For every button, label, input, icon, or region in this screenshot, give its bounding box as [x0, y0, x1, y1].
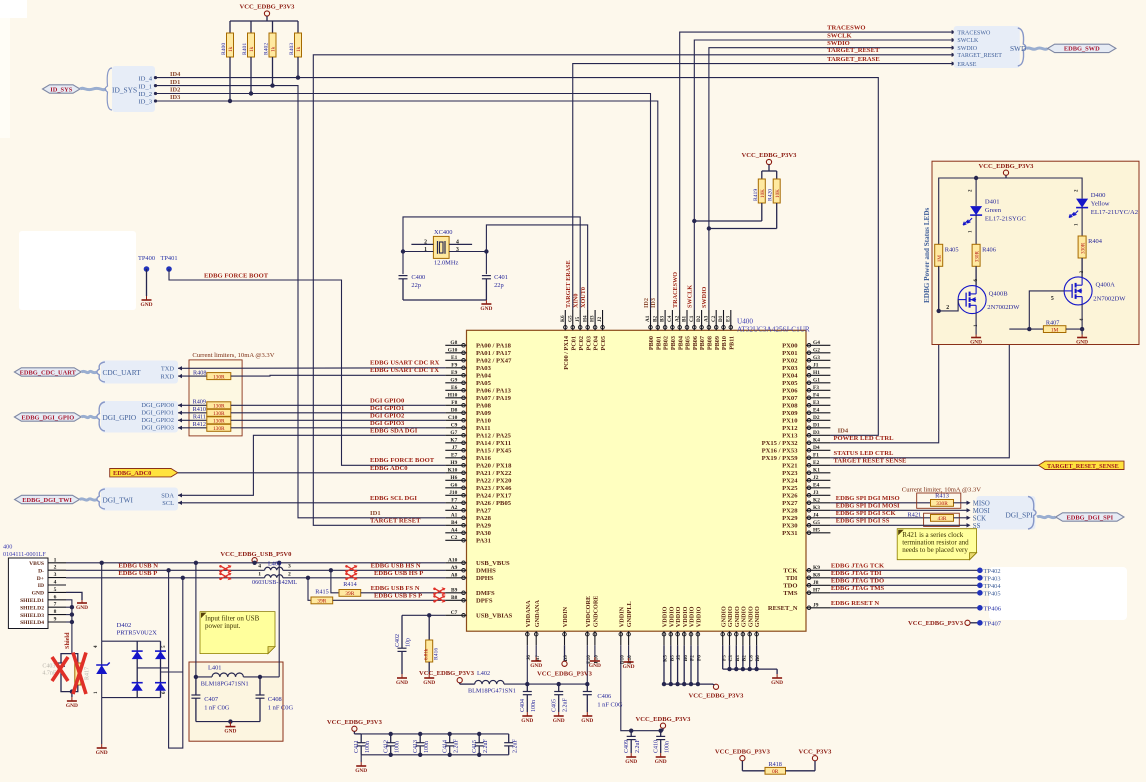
- wire d402 top rail: [102, 640, 161, 642]
- svg-text:100n: 100n: [395, 741, 401, 753]
- svg-text:DGI GPIO2: DGI GPIO2: [370, 413, 405, 420]
- svg-text:C400: C400: [411, 274, 425, 281]
- junction ct449: [448, 732, 452, 736]
- svg-text:C10: C10: [448, 415, 458, 421]
- svg-text:PA31: PA31: [476, 538, 491, 545]
- svg-text:R410: R410: [193, 406, 206, 413]
- port EDBG_DGI_TWI: [15, 495, 80, 504]
- svg-text:XIN0: XIN0: [573, 294, 580, 308]
- svg-text:2: 2: [54, 565, 57, 571]
- svg-text:2N7002DW: 2N7002DW: [987, 304, 1020, 311]
- svg-text:1 nF C0G: 1 nF C0G: [268, 705, 294, 712]
- wire RXD right: [231, 374, 445, 377]
- wire SCK right: [954, 517, 968, 519]
- junction R419-SWCLK: [692, 219, 696, 223]
- svg-text:D3: D3: [813, 430, 820, 436]
- svg-text:PX06: PX06: [782, 388, 798, 395]
- svg-text:B3: B3: [660, 316, 666, 322]
- svg-text:GND: GND: [521, 718, 533, 724]
- junction dnp bottom: [70, 689, 74, 693]
- U400 designator: [737, 318, 810, 334]
- svg-text:PC04: PC04: [593, 336, 600, 350]
- wire DGI_GPIO1 left: [178, 412, 207, 414]
- svg-text:L401: L401: [208, 665, 222, 672]
- wire TRACESWO: [680, 32, 953, 310]
- junction vddana rail: [525, 682, 529, 686]
- svg-text:EDBG_DGI_TWI: EDBG_DGI_TWI: [22, 497, 72, 504]
- ground C406: [581, 712, 593, 724]
- net label SWDIO vertical: [701, 286, 708, 308]
- harness connector DGI_TWI: [80, 488, 179, 511]
- svg-text:E4: E4: [813, 408, 820, 414]
- svg-text:EDBG USB HS N: EDBG USB HS N: [371, 563, 421, 570]
- net label TARGET RESET pin: [370, 517, 421, 524]
- svg-text:EDBG SPI DGI SCK: EDBG SPI DGI SCK: [836, 510, 897, 517]
- svg-text:PC01: PC01: [570, 336, 577, 350]
- net label EDBG JTAG TCK: [831, 563, 885, 570]
- wire SWDIO: [709, 48, 953, 310]
- svg-text:100n: 100n: [664, 741, 670, 753]
- net label DGI GPIO3: [370, 420, 405, 427]
- power VCC_P3V3: [786, 749, 833, 771]
- svg-text:R411: R411: [193, 413, 206, 420]
- testpoint TP405: [977, 590, 1000, 597]
- transistor Q400A 2N7002DW: [1051, 270, 1126, 321]
- junction sh8: [70, 612, 74, 616]
- svg-text:TARGET RESET SENSE: TARGET RESET SENSE: [834, 458, 908, 465]
- junction vddio 697: [696, 682, 700, 686]
- wire xtal gnd: [403, 299, 486, 301]
- capacitor C401 22p: [482, 274, 508, 300]
- svg-text:330R: 330R: [936, 501, 948, 507]
- svg-text:K10: K10: [448, 468, 458, 474]
- U400 top pins PC00-PC05: [560, 310, 607, 370]
- inductor L400 0603USB-142ML: [252, 561, 297, 586]
- net label EDBG USB HS N: [371, 563, 421, 570]
- wire FS N right: [361, 592, 446, 594]
- svg-text:ERASE: ERASE: [957, 62, 976, 68]
- diode D402c upper right: [155, 641, 166, 697]
- svg-text:GNDANA: GNDANA: [534, 600, 541, 628]
- wire POWER LED CTRL: [830, 311, 938, 443]
- svg-text:VCC_EDBG_P3V3: VCC_EDBG_P3V3: [419, 670, 475, 677]
- svg-text:G3: G3: [813, 355, 820, 361]
- wire DGI_GPIO2 right: [231, 419, 445, 421]
- svg-text:PA05: PA05: [476, 380, 492, 387]
- wire DGI_GPIO3 right: [231, 427, 445, 429]
- svg-text:D1: D1: [718, 315, 724, 322]
- svg-text:ID4: ID4: [838, 428, 849, 435]
- power VCC_EDBG_P3V3 led box: [979, 163, 1035, 178]
- ground caps row: [355, 762, 367, 774]
- svg-text:RXD: RXD: [161, 374, 175, 381]
- pin number d402: [94, 645, 167, 694]
- svg-text:8: 8: [54, 609, 57, 615]
- wire d402 vbus drop: [101, 563, 103, 641]
- wire led rail: [939, 178, 1082, 244]
- svg-text:A10: A10: [448, 558, 458, 564]
- svg-text:EDBG JTAG TDI: EDBG JTAG TDI: [831, 570, 882, 577]
- junction vbias r416: [427, 613, 431, 617]
- capacitor C402 10p: [395, 615, 412, 674]
- svg-text:C413: C413: [413, 740, 419, 753]
- net label ID4: [170, 71, 181, 78]
- svg-text:C404: C404: [520, 699, 526, 712]
- svg-text:GNDPLL: GNDPLL: [626, 601, 633, 627]
- wire GNDIO rail: [723, 645, 777, 674]
- svg-text:VDDIN: VDDIN: [562, 606, 569, 627]
- wire D401 drop: [975, 178, 977, 206]
- svg-text:GND: GND: [66, 703, 78, 709]
- wire MOSI: [830, 509, 967, 511]
- svg-text:TP407: TP407: [984, 620, 1002, 627]
- junction gndio 736: [734, 667, 738, 671]
- power VCC_EDBG_P3V3 vddio: [689, 684, 745, 699]
- svg-text:DPFS: DPFS: [476, 598, 493, 605]
- net label DGI GPIO1: [370, 405, 404, 412]
- svg-text:TCK: TCK: [783, 568, 798, 575]
- svg-text:EDBG_ADC0: EDBG_ADC0: [113, 470, 151, 477]
- svg-text:TP406: TP406: [984, 605, 1002, 612]
- svg-text:VCC_EDBG_P3V3: VCC_EDBG_P3V3: [742, 152, 798, 159]
- svg-text:D+: D+: [37, 576, 44, 582]
- svg-text:PC03: PC03: [585, 336, 592, 350]
- svg-text:DGI_GPIO2: DGI_GPIO2: [141, 417, 174, 424]
- svg-text:ID3: ID3: [650, 298, 657, 308]
- svg-text:E3: E3: [725, 316, 731, 322]
- diode D402d lower left: [132, 683, 143, 691]
- svg-text:B4: B4: [451, 520, 458, 526]
- net label DGI GPIO2: [370, 413, 405, 420]
- svg-text:GND: GND: [423, 680, 435, 686]
- U400 left pins USB: [445, 558, 512, 620]
- junction xtal right: [484, 249, 488, 253]
- net label EDBG USART CDC TX: [370, 367, 439, 374]
- net label TARGET RESET SENSE: [834, 458, 908, 465]
- power VCC_EDBG_USB_P5V0: [220, 551, 292, 563]
- junction vbus-l401b: [277, 561, 281, 565]
- svg-text:PX30: PX30: [782, 523, 798, 530]
- harness entry dots ID_SYS: [154, 76, 157, 103]
- resistor R414: [339, 581, 361, 597]
- svg-text:TARGET ERASE: TARGET ERASE: [565, 260, 572, 308]
- differential pair marker usb left: [219, 565, 231, 581]
- svg-text:K2: K2: [813, 498, 820, 504]
- inductor L402 BLM18PG471SN1: [468, 670, 516, 695]
- wire TARGET RESET SENSE: [830, 464, 1038, 466]
- svg-text:DGI_TWI: DGI_TWI: [103, 495, 134, 504]
- net label EDBG SPI DGI MOSI: [836, 503, 900, 510]
- svg-text:H1: H1: [813, 370, 820, 376]
- svg-text:DGI GPIO3: DGI GPIO3: [370, 420, 405, 427]
- DNP C403 R417 network: [42, 654, 90, 697]
- svg-text:C411: C411: [354, 740, 360, 753]
- svg-text:PA23 / PX46: PA23 / PX46: [476, 485, 512, 492]
- testpoint TP400: [138, 255, 155, 296]
- wire d402 bottom rail: [102, 697, 161, 699]
- net label EDBG SPI DGI MISO: [836, 495, 900, 502]
- svg-text:ID_4: ID_4: [138, 76, 152, 83]
- svg-text:R414: R414: [343, 581, 356, 588]
- svg-text:43R: 43R: [938, 516, 947, 522]
- net label TARGET ERASE vertical: [565, 260, 572, 308]
- svg-text:PX04: PX04: [782, 373, 798, 380]
- svg-text:K6: K6: [560, 315, 566, 322]
- net label EDBG SPI DGI SS: [836, 518, 890, 525]
- port EDBG_DGI_GPIO: [14, 413, 81, 422]
- svg-text:TRACESWO: TRACESWO: [957, 30, 991, 36]
- wire shield bus: [66, 600, 72, 654]
- svg-text:130R: 130R: [213, 411, 225, 417]
- ground GNDCORE: [589, 657, 601, 669]
- svg-text:EDBG JTAG TMS: EDBG JTAG TMS: [831, 585, 885, 592]
- svg-text:F1: F1: [813, 453, 819, 459]
- svg-text:EDBG SPI DGI SS: EDBG SPI DGI SS: [836, 518, 890, 525]
- harness connector SWD: [954, 26, 1048, 68]
- ground C409: [625, 753, 637, 765]
- svg-text:GND: GND: [141, 302, 153, 308]
- svg-text:K1: K1: [813, 468, 820, 474]
- svg-text:E6: E6: [451, 385, 458, 391]
- junction gndio 756: [754, 667, 758, 671]
- svg-text:PC02: PC02: [578, 336, 585, 350]
- wire analog rail: [504, 683, 587, 685]
- junction gndio 729: [727, 667, 731, 671]
- resistor R407: [1043, 320, 1066, 334]
- wire ID4: [155, 78, 878, 436]
- text current limiters: [192, 352, 274, 359]
- resistor R416 6.81k: [425, 615, 440, 674]
- svg-text:G6: G6: [450, 483, 457, 489]
- svg-text:XC400: XC400: [434, 229, 452, 236]
- svg-text:TP401: TP401: [160, 255, 177, 262]
- port EDBG_CDC_UART: [14, 368, 81, 377]
- ground C404: [521, 712, 533, 724]
- net label EDBG USB HS P: [374, 570, 423, 577]
- junction cb390: [389, 753, 393, 757]
- svg-text:GND: GND: [771, 680, 783, 686]
- svg-text:C403: C403: [42, 663, 55, 669]
- ground GNDIO: [771, 674, 783, 686]
- svg-text:PA16: PA16: [476, 455, 492, 462]
- resistor R402: [264, 21, 277, 86]
- wire l401 out up: [278, 563, 280, 677]
- svg-text:ID2: ID2: [643, 298, 650, 308]
- note input filter: [200, 612, 275, 654]
- svg-text:EDBG USB P: EDBG USB P: [118, 570, 157, 577]
- wire EDBG JTAG TDI: [830, 577, 980, 579]
- svg-text:D401: D401: [985, 199, 1000, 206]
- power VCC_EDBG_P3V3 R419: [742, 152, 798, 171]
- svg-text:PX25: PX25: [782, 485, 798, 492]
- svg-text:G2: G2: [813, 348, 820, 354]
- svg-text:PX10: PX10: [782, 418, 798, 425]
- svg-text:330R: 330R: [975, 251, 981, 263]
- wire FS N: [331, 570, 339, 593]
- svg-text:VCC_P3V3: VCC_P3V3: [799, 749, 833, 756]
- svg-text:J1: J1: [813, 363, 819, 369]
- svg-text:GND: GND: [355, 768, 367, 774]
- wire HS P row: [283, 577, 446, 579]
- junction ct479: [477, 732, 481, 736]
- ground filter: [224, 722, 236, 735]
- svg-text:PX15 / PX32: PX15 / PX32: [762, 440, 799, 447]
- svg-text:DGI_GPIO1: DGI_GPIO1: [141, 410, 174, 417]
- wire EDBG JTAG TDO: [830, 584, 980, 586]
- junction filter gnd: [228, 719, 232, 723]
- wire ID1: [155, 86, 445, 518]
- svg-text:R408: R408: [193, 369, 206, 376]
- net label EDBG FORCE BOOT pin: [370, 457, 435, 464]
- svg-text:GNDCORE: GNDCORE: [593, 596, 600, 628]
- svg-text:K7: K7: [450, 438, 457, 444]
- junction vddio 670: [669, 682, 673, 686]
- capacitor C409 2.2uF: [624, 731, 641, 753]
- diode array D402 PRTR5V0U2X: [117, 622, 158, 637]
- svg-text:EDBG SPI DGI MISO: EDBG SPI DGI MISO: [836, 495, 900, 502]
- junction sh9: [70, 620, 74, 624]
- svg-text:TP402: TP402: [984, 568, 1001, 575]
- svg-text:E7: E7: [451, 453, 458, 459]
- junction ct390: [389, 732, 393, 736]
- svg-text:4: 4: [258, 564, 261, 570]
- wire Q400B gate: [939, 300, 958, 311]
- svg-text:PA26 / PB05: PA26 / PB05: [476, 500, 512, 507]
- svg-text:PB07: PB07: [699, 336, 706, 350]
- svg-text:ID2: ID2: [170, 87, 180, 94]
- svg-text:C2: C2: [451, 535, 458, 541]
- testpoint TP401: [160, 255, 177, 272]
- svg-text:PA06 / PA13: PA06 / PA13: [476, 388, 512, 395]
- svg-text:J9: J9: [813, 603, 819, 609]
- wire ID3: [155, 101, 658, 310]
- svg-text:K4: K4: [813, 438, 820, 444]
- net label TARGET_ERASE: [827, 56, 880, 63]
- junction R401-ID2: [249, 91, 253, 95]
- power VCC_EDBG_P3V3 r418: [715, 749, 771, 771]
- ground Q400A: [1076, 335, 1088, 346]
- svg-text:SCK: SCK: [973, 516, 986, 523]
- resistor R405: [935, 244, 959, 311]
- svg-text:J2: J2: [597, 316, 603, 322]
- wire d402 mid right: [161, 671, 183, 673]
- junction vbus-l401a: [194, 561, 198, 565]
- wire D400-R404: [1081, 208, 1083, 236]
- svg-text:TP403: TP403: [984, 575, 1001, 582]
- svg-text:D4: D4: [813, 445, 820, 451]
- ground C405: [553, 712, 565, 724]
- svg-text:EL17-21UYC/A2: EL17-21UYC/A2: [1091, 209, 1138, 216]
- differential pair marker usb fs: [433, 587, 445, 603]
- svg-text:PX24: PX24: [782, 478, 798, 485]
- net label ID1: [170, 79, 180, 86]
- wire VDDCORE drop: [586, 645, 588, 684]
- net label Shield vertical: [64, 632, 71, 649]
- svg-text:PA09: PA09: [476, 410, 492, 417]
- svg-text:G5: G5: [567, 315, 573, 322]
- net label ID4 right: [838, 428, 849, 435]
- svg-text:E1: E1: [451, 355, 458, 361]
- wire MISO right: [954, 502, 968, 504]
- svg-text:R405: R405: [945, 246, 959, 253]
- svg-text:ID_SYS: ID_SYS: [50, 86, 72, 93]
- svg-text:GND: GND: [32, 591, 44, 597]
- svg-text:EDBG USB N: EDBG USB N: [118, 563, 158, 570]
- svg-text:A2: A2: [451, 505, 458, 511]
- svg-text:PA14 / PX11: PA14 / PX11: [476, 440, 511, 447]
- power VCC_EDBG_P3V3 caps row: [327, 719, 383, 734]
- text EDBG Power and Status LEDs: [923, 207, 931, 303]
- svg-text:ID_SYS: ID_SYS: [112, 86, 137, 95]
- svg-text:ID4: ID4: [170, 71, 181, 78]
- svg-text:A8: A8: [451, 573, 458, 579]
- svg-text:VCC_EDBG_P3V3: VCC_EDBG_P3V3: [636, 716, 692, 723]
- svg-text:PA28: PA28: [476, 515, 492, 522]
- junction cb449: [448, 753, 452, 757]
- ground xtal: [480, 300, 492, 312]
- power VCC_EDBG_P3V3 L402: [419, 670, 475, 684]
- svg-text:RESET_N: RESET_N: [768, 605, 798, 612]
- svg-text:VDDCORE: VDDCORE: [585, 596, 592, 627]
- svg-text:DGI_GPIO3: DGI_GPIO3: [141, 425, 174, 432]
- wire d402 mid left: [137, 667, 168, 669]
- svg-text:G1: G1: [813, 378, 820, 384]
- svg-text:H9: H9: [450, 460, 457, 466]
- svg-text:3: 3: [54, 572, 57, 578]
- svg-text:TARGET_ERASE: TARGET_ERASE: [827, 56, 880, 63]
- svg-text:PB08: PB08: [707, 336, 714, 350]
- wire Q400B source: [975, 313, 977, 335]
- wire SCL: [178, 502, 445, 504]
- svg-text:1k: 1k: [271, 46, 277, 52]
- wire EDBG ADC0: [178, 472, 446, 474]
- svg-text:R420: R420: [768, 189, 774, 201]
- svg-text:PA30: PA30: [476, 530, 492, 537]
- svg-text:TMS: TMS: [783, 590, 798, 597]
- svg-text:E3: E3: [813, 400, 820, 406]
- svg-text:C409: C409: [624, 740, 630, 753]
- svg-text:TDI: TDI: [786, 575, 798, 582]
- svg-text:A4: A4: [451, 528, 458, 534]
- svg-text:TARGET_RESET: TARGET_RESET: [827, 47, 880, 54]
- svg-text:1 nF C0G: 1 nF C0G: [597, 702, 623, 709]
- svg-text:1: 1: [54, 557, 57, 563]
- svg-text:PA10: PA10: [476, 418, 492, 425]
- harness entry arrows DGI_GPIO: [178, 403, 182, 430]
- junction fsp tap: [306, 576, 310, 580]
- wire EDBG FORCE BOOT: [169, 269, 445, 465]
- svg-text:DMFS: DMFS: [476, 590, 495, 597]
- svg-text:0104111-0001LF: 0104111-0001LF: [3, 551, 46, 558]
- svg-text:PA01 / PA17: PA01 / PA17: [476, 350, 512, 357]
- svg-text:Q400A: Q400A: [1096, 282, 1116, 289]
- wire FS P: [308, 578, 311, 601]
- resistor R409: [193, 398, 231, 409]
- svg-text:R412: R412: [193, 421, 206, 428]
- svg-text:GND: GND: [623, 664, 635, 670]
- wire VDDIO rail: [664, 645, 713, 684]
- harness connector ID_SYS: [80, 66, 155, 112]
- svg-text:SHIELD1: SHIELD1: [20, 598, 44, 604]
- junction c409 rail: [629, 729, 633, 733]
- capacitor C408 1nF: [256, 677, 294, 722]
- svg-text:0R: 0R: [772, 769, 779, 775]
- ground C402: [396, 674, 408, 686]
- svg-text:A1: A1: [645, 315, 651, 322]
- svg-text:VCC_EDBG_P3V3: VCC_EDBG_P3V3: [979, 163, 1035, 170]
- wire Q400A gate: [1029, 291, 1064, 329]
- wire DGI_GPIO3 left: [178, 427, 207, 429]
